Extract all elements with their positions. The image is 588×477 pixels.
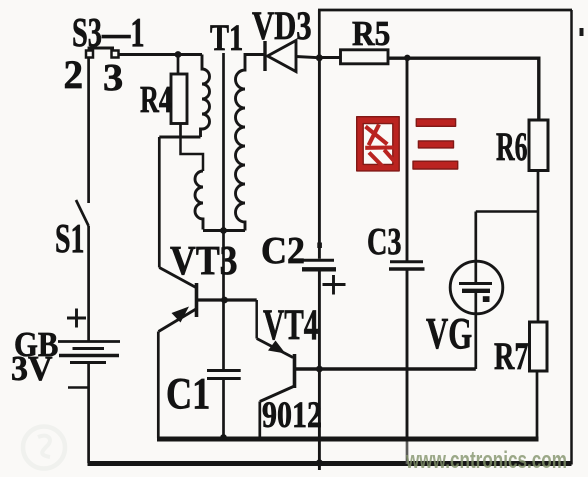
node VT3 base junction [221, 297, 228, 304]
wire VT3 emitter down [157, 332, 160, 439]
wire bottom inner rail [157, 437, 539, 442]
capacitor C3 plates [390, 260, 423, 263]
capacitor C2 plus sign [323, 275, 346, 295]
resistor R6 [529, 120, 548, 171]
svg-text:www.cntronics.com: www.cntronics.com [405, 447, 567, 473]
switch S3-1 terminal 3 [112, 51, 119, 58]
wire C3 column to outer rail [406, 438, 409, 465]
wire horizontal below R4 [159, 136, 200, 139]
transistor VT3 base bar [195, 283, 199, 317]
svg-text:3V: 3V [11, 349, 53, 388]
node C2 wire rail2 junction [316, 459, 323, 466]
neon lamp VG lower electrode [462, 289, 490, 293]
svg-text:2: 2 [64, 53, 84, 98]
glyph 图 frame [357, 117, 400, 171]
wire right border vertical [570, 10, 573, 465]
svg-text:R4: R4 [140, 79, 172, 121]
wire step to lower winding [181, 137, 204, 171]
svg-text:C2: C2 [261, 230, 305, 272]
transistor VT3 base wire [197, 298, 257, 301]
transformer T1 core wire vertical [222, 53, 225, 370]
svg-text:S1: S1 [55, 216, 84, 262]
wire VG top horizontal [476, 210, 538, 213]
switch S1 blade [76, 200, 89, 226]
node VD3 junction [316, 54, 323, 61]
transformer T1 secondary winding [236, 55, 265, 231]
neon lamp VG upper electrode [459, 282, 492, 285]
neon lamp VG circle [450, 261, 503, 314]
wire top border horizontal [318, 9, 572, 12]
wire battery negative down [87, 364, 90, 463]
svg-text:3: 3 [103, 56, 123, 99]
transistor VT4 collector diagonal [260, 386, 295, 402]
node C2 wire base junction [316, 366, 323, 373]
wire R7 bottom to rail [536, 371, 539, 438]
node R4 top junction [175, 51, 182, 58]
wire VT4 collector down [258, 402, 261, 439]
capacitor C1 plates [207, 369, 241, 372]
transistor VT4 base wire to VG [295, 367, 476, 371]
capacitor C3 wire top [406, 58, 409, 261]
svg-text:VG: VG [426, 310, 472, 359]
capacitor C2 plates [302, 259, 335, 262]
svg-text:VT4: VT4 [263, 302, 318, 350]
capacitor C2 wire top [318, 58, 321, 259]
glyph 三 strokes [416, 119, 455, 127]
wire bottom outer rail [88, 461, 572, 466]
svg-text:C3: C3 [367, 221, 402, 263]
wire from S1 to battery [87, 226, 90, 341]
battery GB plate long 2 [59, 354, 119, 358]
transistor VT3 collector wire [158, 137, 161, 268]
svg-text:T1: T1 [210, 17, 243, 59]
wire winding bottoms junction horizontal [203, 229, 245, 232]
capacitor C1 wire bottom [222, 380, 225, 438]
switch S3-1 bracket [89, 48, 114, 53]
transistor VT4 base bar [293, 354, 297, 388]
svg-text:R5: R5 [352, 15, 390, 54]
svg-text:S3—1: S3—1 [72, 9, 145, 56]
battery negative tick [68, 386, 88, 389]
neon lamp VG dot [483, 296, 490, 302]
battery GB plate short 1 [73, 347, 105, 350]
diode VD3 triangle [268, 41, 297, 72]
capacitor C3 wire bottom [406, 271, 409, 438]
transformer T1 primary upper winding [201, 55, 210, 138]
scan artifact right edge [580, 28, 584, 36]
wire diode anode to junction [296, 57, 321, 58]
node core wire rail junction [220, 434, 227, 441]
capacitor C2 wire bottom [318, 272, 321, 471]
battery GB plate long 1 [58, 340, 120, 343]
svg-text:C1: C1 [166, 369, 210, 418]
transformer T1 primary lower winding [195, 171, 203, 230]
wire VG bottom stem [474, 293, 477, 369]
glyph 图 inner strokes [365, 125, 394, 167]
wire junction up to top border [318, 10, 321, 58]
wire top rail from switch to transformer [118, 53, 202, 56]
svg-text:VD3: VD3 [252, 3, 312, 48]
battery GB plus sign [67, 309, 86, 328]
wire VG top stem [474, 212, 477, 284]
wire left vertical from terminal 2 down [87, 58, 90, 203]
transistor VT4 emitter diagonal with arrow [257, 339, 293, 358]
node winding bottom junction [220, 227, 227, 234]
transistor VT3 emitter diagonal with arrow [159, 309, 197, 332]
watermark circle logo [23, 427, 65, 469]
svg-text:9012: 9012 [262, 395, 322, 436]
resistor R7 [530, 322, 548, 371]
svg-text:VT3: VT3 [170, 239, 238, 284]
node C3 top junction [404, 55, 410, 61]
svg-text:R7: R7 [494, 335, 529, 379]
scan blob on C2 wire [317, 243, 322, 249]
wire R6 bottom to R7 top [537, 171, 540, 323]
transistor VT4 emitter wire corner [255, 300, 258, 339]
wire R5 to R6 thick [388, 58, 539, 120]
switch S3-1 terminal 2 [86, 51, 93, 58]
red figure title 图三 [357, 117, 458, 171]
battery GB plate short 2 [70, 361, 106, 364]
resistor R4 [177, 55, 180, 75]
svg-text:R6: R6 [496, 126, 528, 170]
diode VD3 cathode bar [263, 41, 266, 71]
resistor R5 [319, 56, 341, 59]
transistor VT3 collector diagonal [159, 268, 196, 288]
